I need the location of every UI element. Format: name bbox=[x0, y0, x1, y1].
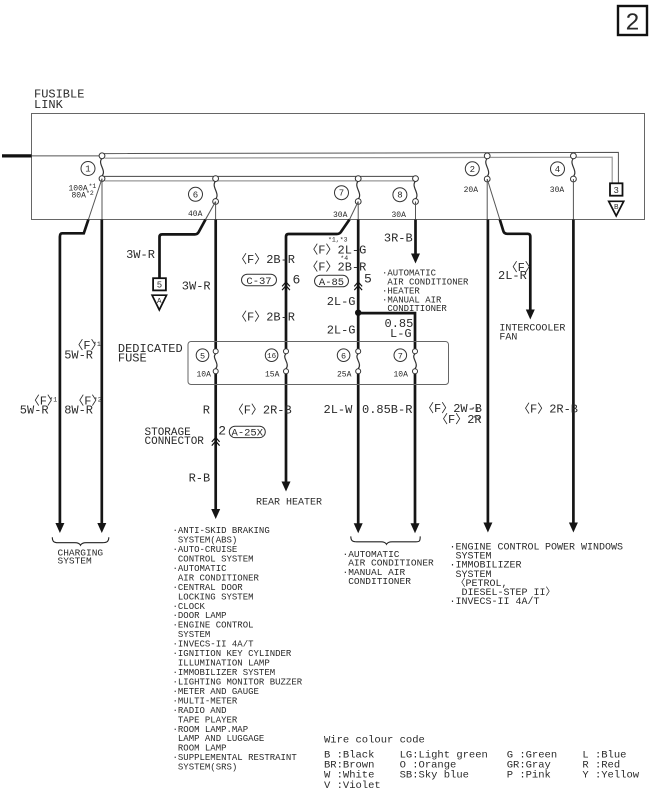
connector name A-85 bbox=[315, 275, 349, 289]
svg-text:5W-R: 5W-R bbox=[64, 349, 93, 363]
svg-text:CONDITIONER: CONDITIONER bbox=[343, 576, 412, 587]
wire F2 right branch to intercooler fan bbox=[487, 179, 535, 320]
svg-text:5: 5 bbox=[364, 272, 372, 287]
wire F8 output 3R-B bbox=[411, 202, 420, 264]
dedicated fuse 16 bbox=[265, 349, 289, 380]
svg-text:·METER AND GAUGE: ·METER AND GAUGE bbox=[173, 687, 259, 697]
svg-text:·INVECS-II 4A/T: ·INVECS-II 4A/T bbox=[173, 640, 255, 650]
svg-text:〈F〉2B-R: 〈F〉2B-R bbox=[235, 310, 295, 325]
wire F6 left branch to connector 5 bbox=[160, 202, 216, 279]
connector C-37 chevron bbox=[282, 282, 290, 290]
svg-text:30A: 30A bbox=[392, 211, 407, 220]
wire label F1 5W-R lower left bbox=[20, 394, 59, 418]
connector 5 box bbox=[153, 278, 166, 291]
main feed wire bbox=[2, 154, 99, 157]
wire colour code legend bbox=[324, 735, 640, 792]
wire label F 2L-R bbox=[498, 260, 537, 283]
svg-text:2: 2 bbox=[218, 424, 226, 439]
dedicated fuse 5 bbox=[196, 349, 218, 380]
label DEDICATED FUSE bbox=[118, 342, 183, 366]
fusible link 1 bbox=[69, 153, 105, 200]
storage connector label bbox=[145, 427, 205, 448]
svg-text:5W-R: 5W-R bbox=[20, 403, 49, 417]
charging system brace bbox=[52, 537, 109, 545]
svg-text:C-37: C-37 bbox=[246, 276, 271, 288]
svg-text:·INVECS-II 4A/T: ·INVECS-II 4A/T bbox=[450, 596, 540, 608]
engine control system list bbox=[450, 542, 556, 608]
svg-text:LAMP AND LUGGAGE: LAMP AND LUGGAGE bbox=[173, 734, 265, 744]
svg-text:〈F〉2R-B: 〈F〉2R-B bbox=[232, 403, 292, 418]
svg-text:3W-R: 3W-R bbox=[182, 279, 211, 293]
svg-text:*1,*3: *1,*3 bbox=[328, 237, 348, 244]
fusible link box bbox=[32, 114, 645, 220]
svg-text:R: R bbox=[203, 404, 210, 418]
svg-text:〈F〉2B-R: 〈F〉2B-R bbox=[235, 252, 295, 267]
wire F4 to power windows bbox=[569, 179, 578, 533]
svg-text:10A: 10A bbox=[394, 370, 409, 379]
svg-text:〈F〉2R-B: 〈F〉2R-B bbox=[518, 402, 578, 417]
svg-text:3R-B: 3R-B bbox=[384, 232, 413, 246]
svg-text:TAPE PLAYER: TAPE PLAYER bbox=[173, 715, 238, 725]
svg-text:2: 2 bbox=[625, 11, 639, 38]
svg-text:Wire colour code: Wire colour code bbox=[324, 735, 425, 747]
svg-text:SYSTEM: SYSTEM bbox=[58, 555, 93, 566]
svg-text:3: 3 bbox=[613, 186, 618, 196]
svg-text:6: 6 bbox=[293, 273, 301, 288]
junction node bbox=[355, 310, 361, 316]
top bus bar bbox=[103, 152, 618, 183]
fusible link 8 bbox=[392, 176, 419, 220]
dedicated fuse 6 bbox=[337, 349, 361, 380]
svg-text:80A: 80A bbox=[72, 191, 87, 200]
svg-text:POWER WINDOWS: POWER WINDOWS bbox=[545, 542, 623, 553]
svg-text:20A: 20A bbox=[464, 186, 479, 195]
wire F6 straight down through dedicated fuse 5 bbox=[211, 202, 220, 520]
svg-text:A-25X: A-25X bbox=[232, 428, 264, 440]
connector name A-25X bbox=[229, 426, 265, 439]
svg-text:·ANTI-SKID BRAKING: ·ANTI-SKID BRAKING bbox=[173, 526, 270, 536]
wire F1 left branch to charging bbox=[55, 179, 102, 533]
svg-text:40A: 40A bbox=[188, 210, 203, 219]
wire F7 straight down through A-85 to dedicated fuse 6 bbox=[354, 202, 363, 534]
label FUSIBLE LINK bbox=[34, 87, 84, 112]
svg-text:25A: 25A bbox=[337, 370, 352, 379]
svg-text:6: 6 bbox=[193, 190, 198, 200]
svg-text:LINK: LINK bbox=[34, 98, 64, 112]
svg-text:FUSE: FUSE bbox=[118, 352, 147, 366]
svg-text:FAN: FAN bbox=[499, 333, 517, 344]
svg-text:·AUTO-CRUISE: ·AUTO-CRUISE bbox=[173, 545, 238, 555]
svg-text:A: A bbox=[157, 298, 162, 306]
air conditioner brace bbox=[351, 536, 420, 544]
svg-text:〈F〉2L-G: 〈F〉2L-G bbox=[306, 243, 366, 258]
svg-text:SYSTEM(SRS): SYSTEM(SRS) bbox=[173, 763, 238, 773]
connector A-85 chevron bbox=[354, 282, 362, 290]
svg-text:30A: 30A bbox=[550, 186, 565, 195]
svg-text:2L-G: 2L-G bbox=[327, 324, 356, 338]
lower bus bar bbox=[102, 176, 416, 181]
wire junction branch to dedicated fuse 7 bbox=[358, 313, 419, 533]
big system list bbox=[173, 526, 303, 773]
svg-text:1: 1 bbox=[85, 165, 90, 175]
system list at 3R-B arrow bbox=[382, 268, 469, 314]
svg-text:·AUTOMATIC: ·AUTOMATIC bbox=[173, 564, 228, 574]
svg-text:*3: *3 bbox=[473, 415, 481, 422]
svg-text:〈F〉2B-R: 〈F〉2B-R bbox=[306, 260, 366, 275]
svg-text:2L-G: 2L-G bbox=[327, 295, 356, 309]
off-page triangle B bbox=[609, 201, 624, 216]
svg-text:0.85B-R: 0.85B-R bbox=[362, 403, 412, 417]
svg-text:*1: *1 bbox=[93, 341, 101, 348]
off-page triangle A bbox=[152, 295, 166, 310]
svg-text:8W-R: 8W-R bbox=[64, 403, 93, 417]
dedicated fuse box bbox=[188, 342, 449, 385]
svg-text:L-G: L-G bbox=[390, 327, 412, 341]
svg-text:2L-R: 2L-R bbox=[498, 269, 527, 283]
svg-text:5: 5 bbox=[200, 351, 205, 361]
svg-text:30A: 30A bbox=[333, 211, 348, 220]
fusible link 6 bbox=[188, 176, 219, 219]
air conditioner system list bbox=[343, 549, 435, 587]
svg-text:*2: *2 bbox=[94, 397, 102, 404]
wire F1 straight to charging bbox=[97, 179, 106, 533]
svg-text:7: 7 bbox=[398, 351, 403, 361]
svg-text:8: 8 bbox=[397, 191, 402, 201]
wire label 0.85 L-G bbox=[385, 317, 414, 341]
svg-text:*1: *1 bbox=[49, 397, 57, 404]
svg-text:A-85: A-85 bbox=[319, 277, 344, 289]
svg-text:10A: 10A bbox=[197, 370, 212, 379]
svg-text:·RADIO AND: ·RADIO AND bbox=[173, 706, 227, 716]
wire label F 2L-G with marks bbox=[306, 237, 366, 275]
svg-text:·DOOR LAMP: ·DOOR LAMP bbox=[173, 611, 227, 621]
label INTERCOOLER FAN bbox=[499, 324, 565, 344]
svg-text:CONDITIONER: CONDITIONER bbox=[382, 304, 447, 314]
svg-text:V :Violet: V :Violet bbox=[324, 780, 381, 792]
page number box 2 bbox=[618, 6, 647, 38]
svg-text:·ENGINE CONTROL: ·ENGINE CONTROL bbox=[173, 621, 254, 631]
svg-text:REAR HEATER: REAR HEATER bbox=[256, 497, 322, 508]
connector 3 box bbox=[610, 183, 623, 196]
fusible link 7 bbox=[333, 176, 361, 220]
svg-text:R-B: R-B bbox=[189, 472, 211, 486]
wire label F 2W-B bbox=[422, 401, 482, 427]
svg-text:2: 2 bbox=[470, 165, 475, 175]
wire F2 straight to engine control bbox=[483, 179, 492, 533]
svg-text:5: 5 bbox=[157, 281, 162, 291]
svg-text:B: B bbox=[614, 204, 619, 212]
svg-text:2L-W: 2L-W bbox=[324, 403, 354, 417]
label CHARGING SYSTEM bbox=[58, 547, 104, 566]
storage connector chevron A-25X bbox=[212, 437, 220, 445]
svg-text:·SUPPLEMENTAL RESTRAINT: ·SUPPLEMENTAL RESTRAINT bbox=[173, 753, 298, 763]
connector name C-37 bbox=[242, 274, 277, 288]
wire label F1 5W-R upper bbox=[64, 338, 102, 363]
svg-text:CONNECTOR: CONNECTOR bbox=[145, 436, 205, 448]
svg-text:AIR CONDITIONER: AIR CONDITIONER bbox=[173, 573, 260, 583]
svg-text:*2: *2 bbox=[86, 190, 94, 197]
svg-text:16: 16 bbox=[267, 353, 277, 361]
wire label F2 8W-R bbox=[64, 394, 103, 418]
svg-text:15A: 15A bbox=[265, 370, 280, 379]
svg-text:4: 4 bbox=[555, 165, 560, 175]
fusible link 2 bbox=[464, 153, 491, 195]
dedicated fuse 7 bbox=[394, 349, 418, 380]
svg-text:·IMMOBILIZER SYSTEM: ·IMMOBILIZER SYSTEM bbox=[173, 668, 276, 678]
svg-text:ILLUMINATION LAMP: ILLUMINATION LAMP bbox=[173, 659, 270, 669]
wire F7 left branch through C-37 to fuse 16 bbox=[282, 202, 359, 492]
svg-text:LOCKING SYSTEM: LOCKING SYSTEM bbox=[173, 592, 254, 602]
svg-text:7: 7 bbox=[339, 189, 344, 199]
svg-text:3W-R: 3W-R bbox=[126, 248, 155, 262]
svg-text:6: 6 bbox=[341, 351, 346, 361]
fusible link 4 bbox=[550, 153, 577, 195]
